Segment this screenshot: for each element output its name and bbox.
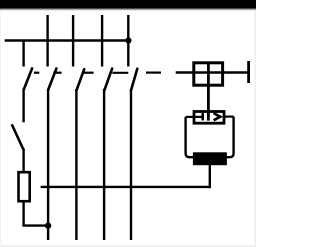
wire trip coil to neutral [209,165,211,188]
node bus junction at pole 4 [125,37,131,43]
relay left contact stub [186,116,202,118]
switch contact S3 pole 3 [104,69,112,91]
relay right stub [224,115,234,117]
wire pole 1 lower [47,89,49,240]
switch contact S4 pole 4 [131,69,137,90]
wire relay right rail [226,117,234,158]
wire transformer secondary to relay [207,62,210,121]
mechanical linkage dashed line [34,71,161,73]
wire pole 3 lower [103,89,105,240]
wire pole 4 upper [127,15,129,67]
switch contact S0 (test branch) [24,68,32,89]
wire pole 2 lower [75,89,77,240]
wire into relay from top [207,112,210,121]
switch contact S1 pole 1 [48,69,56,91]
wire pole 1 upper [46,15,48,67]
wire test tap from bus [22,41,24,67]
wire supply bus L [5,39,130,41]
wire relay left rail [186,117,194,157]
wire resistor bottom elbow [24,202,49,225]
wire test branch to resistor [22,149,24,172]
wire neutral return [41,186,211,188]
relay contact bar [201,113,204,120]
node junction test/pole1 [45,222,51,228]
wire test branch middle [22,89,24,123]
switch contact test button SB [12,125,23,149]
switch contact S2 pole 2 [77,69,85,90]
wire through current transformer [176,71,250,73]
wire pole 2 upper [72,15,74,67]
relay U1 box I> [194,112,224,124]
terminal bar right [247,61,250,83]
wire pole 4 lower [130,89,132,240]
wire pole 3 upper [101,15,103,67]
relay chevron > [214,113,221,120]
trip coil (solid) [193,152,227,165]
resistor R test [19,172,30,201]
current transformer W1 core [194,63,223,85]
